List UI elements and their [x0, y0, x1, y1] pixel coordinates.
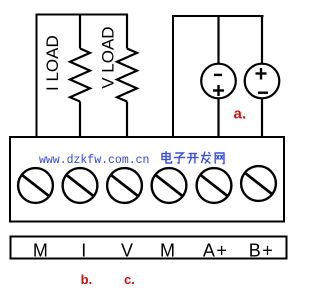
- svg-text:A+: A+: [203, 241, 229, 261]
- wire: terminal M1 up to rail: [36, 14, 38, 137]
- V1 minus sign: [214, 74, 222, 76]
- resistor R_ILOAD: [70, 14, 90, 137]
- svg-text:b.: b.: [81, 272, 93, 287]
- V2 minus sign: [258, 91, 268, 93]
- screw terminal 1 (M): [18, 168, 53, 203]
- screw terminal 2 (I): [63, 168, 98, 203]
- svg-text:c.: c.: [124, 272, 135, 287]
- svg-text:a.: a.: [234, 106, 247, 123]
- screw terminal 6 (B+): [241, 166, 276, 201]
- svg-text:V LOAD: V LOAD: [99, 26, 118, 88]
- svg-text:M: M: [160, 241, 175, 261]
- V1 plus sign: [213, 85, 224, 96]
- svg-text:I: I: [81, 241, 86, 261]
- wire: terminal M2 up to right rail: [172, 16, 174, 137]
- resistor R_VLOAD: [117, 14, 137, 137]
- char 网: [215, 153, 224, 164]
- char 发: [201, 152, 211, 164]
- screw terminal 4 (M): [152, 168, 187, 203]
- svg-text:M: M: [33, 241, 48, 261]
- terminal block body: [10, 137, 284, 222]
- svg-text:I LOAD: I LOAD: [43, 35, 62, 91]
- svg-text:www.dzkfw.com.cn: www.dzkfw.com.cn: [39, 154, 149, 167]
- wire: right top rail: [172, 15, 264, 17]
- screw terminal 3 (V): [107, 168, 142, 203]
- label strip box: [11, 237, 287, 259]
- char 子: [174, 153, 186, 163]
- V2 plus sign: [256, 68, 267, 80]
- wire: left top rail: [36, 14, 129, 16]
- watermark chinese 电子开发网: [162, 151, 224, 164]
- screw terminal 5 (A+): [197, 168, 232, 203]
- source V2 (B+): [245, 16, 280, 137]
- source V1 (A+): [201, 16, 236, 137]
- svg-text:V: V: [121, 241, 133, 261]
- char 开: [187, 154, 199, 164]
- char 电: [162, 151, 172, 163]
- svg-text:B+: B+: [249, 241, 275, 261]
